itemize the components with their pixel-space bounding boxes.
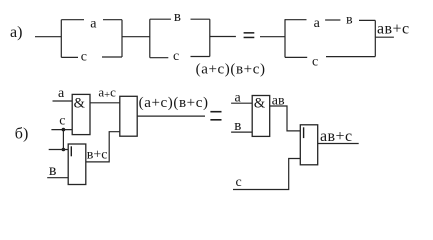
contact a (group1 top branch) bbox=[61, 19, 84, 21]
node: group1 right bar bbox=[121, 20, 123, 57]
wire a to U1 bbox=[53, 100, 73, 102]
svg-text:а: а bbox=[58, 86, 65, 101]
svg-text:в+с: в+с bbox=[87, 147, 108, 162]
gate U3 (AND, unlabeled box) bbox=[120, 96, 137, 136]
svg-text:а: а bbox=[90, 16, 97, 31]
junction dot on U2 input wire bbox=[62, 148, 66, 152]
contact c (group1 bottom branch) bbox=[61, 56, 78, 58]
contact в (group2 top branch) bbox=[150, 18, 171, 20]
OR gate U5 (1) bbox=[300, 125, 317, 165]
svg-text:б): б) bbox=[15, 126, 28, 143]
svg-text:а: а bbox=[314, 16, 321, 31]
svg-text:ав: ав bbox=[272, 94, 285, 109]
svg-text:с: с bbox=[236, 175, 242, 190]
svg-text:с: с bbox=[173, 49, 179, 64]
wire output left network bbox=[210, 36, 236, 38]
equals sign part a bbox=[244, 32, 255, 34]
wire input right network bbox=[260, 36, 285, 38]
svg-text:(а+с)(в+с): (а+с)(в+с) bbox=[139, 95, 209, 111]
wire a to U4 bbox=[231, 102, 252, 104]
AND gate U1 (&) bbox=[72, 94, 90, 134]
wire input left network bbox=[35, 36, 61, 38]
wire output right network bbox=[375, 36, 394, 38]
wire U3 output bbox=[137, 115, 205, 117]
svg-text:&: & bbox=[254, 96, 266, 112]
contact c (group3 bottom branch) bbox=[285, 56, 307, 58]
svg-text:&: & bbox=[74, 95, 86, 111]
wire U5 output bbox=[318, 143, 359, 145]
svg-text:в: в bbox=[346, 13, 353, 28]
wire c to U5 bottom input bbox=[233, 159, 300, 190]
junction dot on c wire bbox=[62, 128, 66, 132]
wire U2 output to riser bbox=[86, 132, 120, 162]
svg-text:с: с bbox=[81, 50, 87, 65]
wire U1 output bbox=[90, 102, 120, 104]
svg-text:ав+с: ав+с bbox=[320, 128, 353, 145]
contact в (group3 top, series second) bbox=[325, 19, 340, 21]
node: group3 left bar bbox=[284, 19, 286, 57]
contact a (group3 top, series first) bbox=[285, 19, 307, 21]
wire between group1 and group2 bbox=[122, 36, 150, 38]
wire в to U4 bbox=[231, 131, 252, 133]
node: group3 right bar bbox=[374, 20, 376, 56]
OR gate U2 (1) bbox=[68, 144, 86, 185]
svg-text:в: в bbox=[174, 9, 181, 25]
wire в to U2 bbox=[47, 177, 68, 179]
svg-text:в: в bbox=[49, 162, 57, 179]
node: group2 left bar bbox=[149, 19, 151, 58]
wire U4 output to U5 top input bbox=[270, 106, 301, 131]
svg-text:ав+с: ав+с bbox=[377, 21, 410, 38]
svg-text:(а+с)(в+с): (а+с)(в+с) bbox=[196, 61, 266, 77]
AND gate U4 (&) bbox=[252, 96, 270, 137]
node: group1 left bar bbox=[60, 20, 62, 58]
contact c (group2 bottom branch) bbox=[150, 57, 169, 59]
svg-text:а): а) bbox=[10, 24, 22, 41]
svg-text:с: с bbox=[312, 55, 318, 70]
wire c branch down bbox=[62, 130, 64, 150]
svg-text:с: с bbox=[59, 113, 65, 128]
wire c to U1 bbox=[51, 129, 72, 131]
equals sign part б bbox=[210, 111, 221, 113]
wire stub into U2 top input bbox=[49, 149, 68, 151]
node: group2 right bar bbox=[209, 19, 211, 56]
